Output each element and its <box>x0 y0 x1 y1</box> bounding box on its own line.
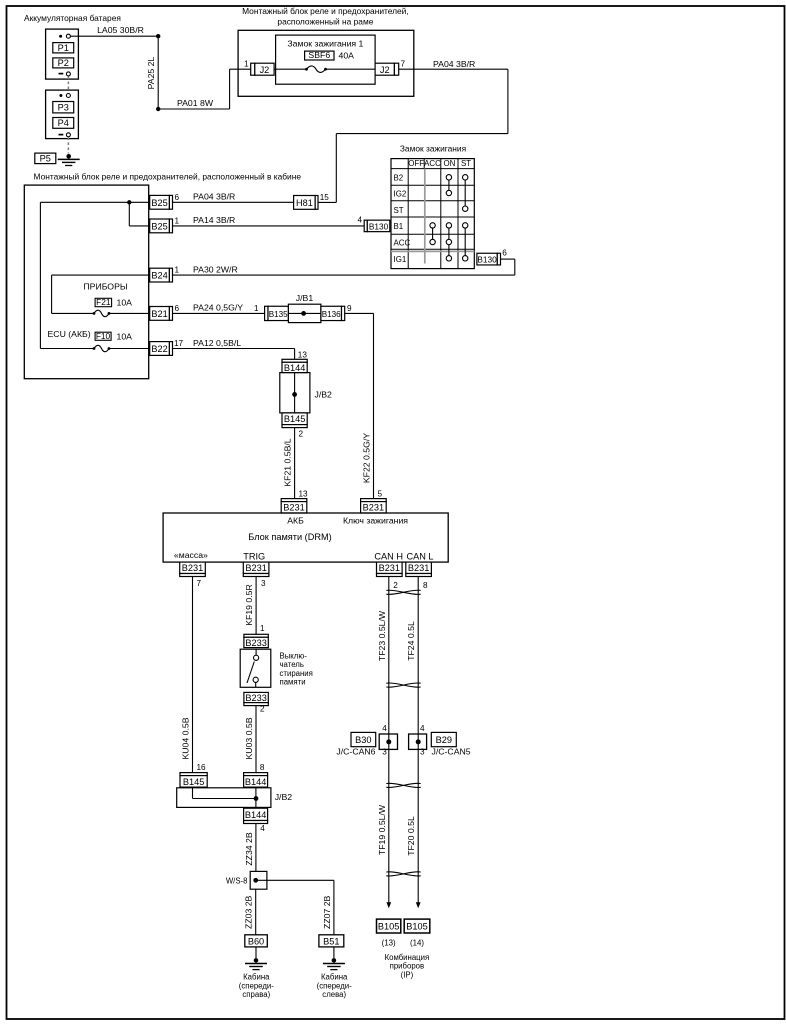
svg-text:Монтажный блок реле и предохра: Монтажный блок реле и предохранителей, р… <box>34 172 302 182</box>
svg-text:TF19 0.5L/W: TF19 0.5L/W <box>377 804 387 855</box>
svg-text:Аккумуляторная батарея: Аккумуляторная батарея <box>24 13 121 23</box>
memory erase switch <box>240 649 271 687</box>
svg-text:J/B2: J/B2 <box>315 390 333 400</box>
svg-text:B231: B231 <box>363 503 384 513</box>
connector B144 pin 8 <box>244 773 268 776</box>
svg-text:1: 1 <box>175 266 180 275</box>
svg-text:SBF6: SBF6 <box>308 50 330 60</box>
node J/C-CAN6 <box>379 734 397 749</box>
svg-text:Блок памяти (DRM): Блок памяти (DRM) <box>248 532 331 542</box>
svg-text:Замок зажигания: Замок зажигания <box>400 144 466 154</box>
svg-text:KF22 0.5G/Y: KF22 0.5G/Y <box>362 433 372 483</box>
wire KU04 0.5B <box>192 577 194 773</box>
ground (battery) <box>66 154 71 159</box>
svg-text:CAN H: CAN H <box>374 551 403 561</box>
wire PA30 2W/R <box>173 274 515 276</box>
contact links <box>448 180 450 190</box>
svg-text:1: 1 <box>254 304 259 313</box>
svg-text:ZZ07 2B: ZZ07 2B <box>322 895 332 929</box>
svg-text:TF24 0.5L: TF24 0.5L <box>406 621 416 661</box>
svg-text:IG2: IG2 <box>394 190 407 199</box>
connector B105 (13) <box>377 919 401 933</box>
svg-text:B145: B145 <box>284 414 305 424</box>
svg-text:7: 7 <box>401 60 406 69</box>
svg-text:B231: B231 <box>182 563 203 573</box>
node J/C-CAN5 <box>409 734 427 749</box>
connector B231 масса pin 7 <box>180 562 206 573</box>
svg-text:B21: B21 <box>151 309 167 319</box>
svg-text:2: 2 <box>260 705 265 714</box>
svg-text:B135: B135 <box>269 310 288 319</box>
svg-text:B24: B24 <box>151 271 167 281</box>
node junction LA05/PA25 <box>156 34 160 38</box>
svg-text:P3: P3 <box>58 102 69 112</box>
ground cabin front-left <box>333 947 335 958</box>
internal bus wire from B24 <box>52 274 150 276</box>
connector B231 Ключ зажигания <box>361 499 387 502</box>
svg-text:16: 16 <box>197 763 207 772</box>
wire CAN H lower (TF19 0.5L/W) <box>388 749 390 902</box>
svg-text:5: 5 <box>378 489 383 498</box>
wire through ignition relay <box>255 68 307 70</box>
svg-text:Ключ зажигания: Ключ зажигания <box>343 516 408 526</box>
svg-text:40A: 40A <box>339 51 355 61</box>
svg-text:B60: B60 <box>248 936 264 946</box>
svg-text:F10: F10 <box>96 331 111 341</box>
connector B130 left <box>364 220 367 232</box>
svg-text:справа): справа) <box>242 990 270 999</box>
svg-text:B144: B144 <box>245 777 266 787</box>
svg-text:6: 6 <box>175 304 180 313</box>
svg-text:10A: 10A <box>117 298 133 308</box>
svg-text:PA14 3B/R: PA14 3B/R <box>193 215 235 225</box>
svg-text:LA05 30B/R: LA05 30B/R <box>97 25 144 35</box>
svg-text:KF19 0.5R: KF19 0.5R <box>244 584 254 626</box>
svg-text:PA04 3B/R: PA04 3B/R <box>193 192 235 202</box>
connector B144 pin 4 <box>244 808 268 820</box>
connector B231 CAN L pin 8 <box>406 562 432 573</box>
wire ZZ03 2B <box>255 889 257 935</box>
svg-text:Выклю-: Выклю- <box>280 652 308 661</box>
svg-text:P2: P2 <box>58 58 69 68</box>
wire PA14 3B/R <box>173 225 364 227</box>
svg-text:J2: J2 <box>380 65 390 75</box>
svg-text:Комбинация: Комбинация <box>385 953 430 962</box>
connector B233 pin 2 <box>244 692 268 702</box>
connector B60 <box>245 935 267 947</box>
svg-text:J/B1: J/B1 <box>296 293 314 303</box>
connector B51 <box>319 935 344 947</box>
connector B105 (14) <box>404 919 430 933</box>
connector H81 <box>294 196 316 210</box>
ground cabin front-right <box>255 947 257 958</box>
svg-text:B130: B130 <box>477 255 497 265</box>
node W/S-8 <box>250 871 267 889</box>
svg-text:8: 8 <box>260 763 265 772</box>
svg-text:2: 2 <box>299 430 304 439</box>
svg-text:B136: B136 <box>322 310 341 319</box>
svg-text:7: 7 <box>197 579 202 588</box>
wire CAN L lower (TF20 0.5L) <box>417 749 419 902</box>
wire B130-6 to PA30 <box>501 258 515 260</box>
svg-text:KU04 0.5B: KU04 0.5B <box>181 717 191 759</box>
svg-text:3: 3 <box>420 748 425 757</box>
connector B145 pin 16 <box>180 773 207 776</box>
wire KU03 0.5B <box>255 706 257 773</box>
svg-text:(спереди-: (спереди- <box>239 981 274 990</box>
connector P5 <box>35 153 56 164</box>
svg-text:4: 4 <box>357 216 362 225</box>
svg-text:B25: B25 <box>151 222 167 232</box>
svg-text:B231: B231 <box>408 563 429 573</box>
svg-text:17: 17 <box>174 339 184 348</box>
wire B22 to J/B2 <box>294 349 296 360</box>
svg-text:приборов: приборов <box>390 962 425 971</box>
dashed link battery2-ground <box>67 137 69 153</box>
svg-text:«масса»: «масса» <box>174 550 208 560</box>
connector B231 TRIG pin 3 <box>243 562 269 573</box>
svg-text:ACC: ACC <box>394 239 411 248</box>
svg-text:TF20 0.5L: TF20 0.5L <box>406 816 416 856</box>
wire PA24 0,5G/Y <box>173 312 265 314</box>
svg-text:P4: P4 <box>58 118 69 128</box>
wire PA04 3B/R <box>173 201 294 203</box>
svg-text:Замок зажигания 1: Замок зажигания 1 <box>287 39 363 49</box>
svg-text:слева): слева) <box>322 990 346 999</box>
svg-text:B2: B2 <box>394 174 404 183</box>
wire CAN H upper (TF23 0.5L/W) <box>388 577 390 735</box>
wire PA01 8W <box>158 108 229 110</box>
connector P3 <box>53 102 74 113</box>
wire KF19 0.5R <box>255 577 257 635</box>
svg-text:F21: F21 <box>96 297 111 307</box>
dashed link battery1-battery2 <box>67 77 69 94</box>
svg-text:B105: B105 <box>378 922 399 932</box>
svg-text:PA04 3B/R: PA04 3B/R <box>433 59 475 69</box>
node junction PA25/PA01 <box>156 107 160 111</box>
svg-text:B144: B144 <box>245 810 266 820</box>
svg-text:OFF: OFF <box>408 159 424 168</box>
internal bus wire from B25 <box>40 201 149 203</box>
svg-text:(14): (14) <box>410 939 424 948</box>
svg-text:B105: B105 <box>406 922 427 932</box>
connector P4 <box>53 118 74 129</box>
svg-text:B233: B233 <box>245 693 266 703</box>
fuse F21 10A <box>95 298 112 306</box>
svg-text:ECU (АКБ): ECU (АКБ) <box>48 329 91 339</box>
wire CAN L upper (TF24 0.5L) <box>417 577 419 735</box>
svg-text:Кабина: Кабина <box>243 973 270 982</box>
svg-text:PA24 0,5G/Y: PA24 0,5G/Y <box>193 303 243 313</box>
svg-text:P1: P1 <box>58 43 69 53</box>
svg-text:H81: H81 <box>296 198 313 208</box>
switch contacts <box>446 175 451 180</box>
svg-text:13: 13 <box>298 350 308 359</box>
svg-text:3: 3 <box>261 579 266 588</box>
fuse SBF6 40A <box>305 51 334 60</box>
arrow to IP (CAN L) <box>416 902 421 908</box>
svg-text:PA12 0,5B/L: PA12 0,5B/L <box>193 338 241 348</box>
svg-text:B233: B233 <box>245 638 266 648</box>
svg-text:J2: J2 <box>260 65 270 75</box>
twisted pair marks <box>386 590 420 594</box>
svg-text:13: 13 <box>299 489 309 498</box>
svg-text:J/C-CAN5: J/C-CAN5 <box>432 747 471 757</box>
ignition switch table <box>391 159 474 269</box>
battery block 2 (P3/P4) <box>46 90 79 139</box>
svg-text:ST: ST <box>461 159 471 168</box>
svg-text:B144: B144 <box>284 363 305 373</box>
connector B231 АКБ <box>281 499 307 502</box>
connector B231 CAN H pin 2 <box>377 562 403 573</box>
svg-text:1: 1 <box>175 216 180 225</box>
connector B25 pin 1 <box>150 219 170 233</box>
svg-text:9: 9 <box>347 304 352 313</box>
wire PA25 2L <box>157 36 159 109</box>
connector P2 <box>53 58 74 68</box>
svg-text:2: 2 <box>393 581 398 590</box>
svg-text:3: 3 <box>382 748 387 757</box>
wire LA05 30B/R <box>70 35 158 37</box>
svg-text:PA30 2W/R: PA30 2W/R <box>193 264 238 274</box>
wire PA12 0,5B/L <box>173 348 295 350</box>
svg-text:J/C-CAN6: J/C-CAN6 <box>336 747 375 757</box>
svg-text:6: 6 <box>175 193 180 202</box>
svg-text:ST: ST <box>394 206 404 215</box>
svg-text:(IP): (IP) <box>401 970 414 979</box>
svg-text:PA01 8W: PA01 8W <box>177 98 214 108</box>
svg-text:1: 1 <box>260 624 265 633</box>
svg-text:АКБ: АКБ <box>287 516 304 526</box>
svg-text:B130: B130 <box>369 222 389 232</box>
svg-text:(спереди-: (спереди- <box>317 981 352 990</box>
svg-text:ZZ03 2B: ZZ03 2B <box>244 895 254 929</box>
connector B135 <box>265 306 268 320</box>
svg-text:J/B2: J/B2 <box>275 792 293 802</box>
frame relay block box <box>238 30 414 96</box>
cabin relay block box <box>24 185 148 379</box>
fuse F10 10A <box>95 332 111 340</box>
connector B136 <box>321 306 342 320</box>
wire KF21 0.5B/L <box>294 428 296 499</box>
connector B144 pin 13 <box>282 359 307 362</box>
svg-text:10A: 10A <box>117 331 133 341</box>
svg-text:B231: B231 <box>379 563 400 573</box>
svg-text:P5: P5 <box>40 153 51 163</box>
battery block 1 (P1/P2) <box>46 29 79 79</box>
svg-text:CAN L: CAN L <box>406 551 433 561</box>
svg-text:расположенный на раме: расположенный на раме <box>277 16 373 26</box>
svg-text:чатель: чатель <box>280 660 304 669</box>
svg-text:15: 15 <box>320 193 330 202</box>
junction block J/B2 lower <box>177 788 271 808</box>
DRM block box <box>163 513 448 562</box>
connector B29 <box>431 732 456 746</box>
svg-text:ON: ON <box>443 159 455 168</box>
twisted pair marks <box>386 783 420 787</box>
connector P1 <box>53 43 74 53</box>
gray key-position lines <box>424 169 426 264</box>
wire ZZ34 2B <box>255 824 257 872</box>
connector B22 pin 17 <box>150 342 170 356</box>
svg-text:4: 4 <box>382 724 387 733</box>
connector B233 pin 1 <box>244 634 268 637</box>
svg-text:W/S-8: W/S-8 <box>226 876 248 885</box>
svg-text:4: 4 <box>260 824 265 833</box>
svg-text:IG1: IG1 <box>394 255 407 264</box>
svg-text:B231: B231 <box>283 503 304 513</box>
svg-text:4: 4 <box>420 724 425 733</box>
svg-text:B231: B231 <box>245 563 266 573</box>
connector B130 right <box>477 253 497 265</box>
svg-text:B29: B29 <box>436 735 452 745</box>
wire KF22 0.5G/Y <box>345 312 374 314</box>
svg-text:Монтажный блок реле и предохра: Монтажный блок реле и предохранителей, <box>242 6 409 16</box>
connector J2 right <box>375 63 394 75</box>
svg-text:ACC: ACC <box>424 159 441 168</box>
svg-text:1: 1 <box>244 60 249 69</box>
arrow to IP (CAN H) <box>386 902 391 908</box>
connector B145 pin 2 <box>282 413 307 425</box>
connector B21 pin 6 <box>150 307 170 321</box>
svg-text:KF21 0.5B/L: KF21 0.5B/L <box>283 438 293 486</box>
svg-text:ПРИБОРЫ: ПРИБОРЫ <box>83 281 127 291</box>
connector J2 left <box>251 63 255 75</box>
svg-text:B30: B30 <box>355 735 371 745</box>
svg-text:B51: B51 <box>323 936 339 946</box>
wire PA04 3B/R (to H81) <box>399 68 508 70</box>
svg-text:(13): (13) <box>382 939 396 948</box>
svg-text:ZZ34 2B: ZZ34 2B <box>244 832 254 866</box>
svg-text:B1: B1 <box>394 222 404 231</box>
ignition relay 1 box <box>276 35 376 84</box>
connector B24 pin 1 <box>150 268 170 282</box>
svg-text:памяти: памяти <box>280 678 306 687</box>
svg-text:B145: B145 <box>183 777 204 787</box>
connector B25 pin 6 <box>150 195 170 209</box>
wire to ZZ07 <box>256 879 334 881</box>
svg-text:TF23 0.5L/W: TF23 0.5L/W <box>377 610 387 661</box>
svg-text:Кабина: Кабина <box>321 973 348 982</box>
svg-text:8: 8 <box>423 581 428 590</box>
svg-text:TRIG: TRIG <box>243 551 265 561</box>
svg-text:стирания: стирания <box>280 669 313 678</box>
node junction B25 bus <box>127 200 131 204</box>
svg-text:6: 6 <box>502 249 507 258</box>
svg-text:B25: B25 <box>151 198 167 208</box>
svg-text:B22: B22 <box>151 344 167 354</box>
junction block J/B2 <box>280 373 310 413</box>
connector B30 <box>351 732 376 746</box>
svg-text:PA25 2L: PA25 2L <box>146 56 156 89</box>
svg-text:KU03 0.5B: KU03 0.5B <box>244 717 254 759</box>
